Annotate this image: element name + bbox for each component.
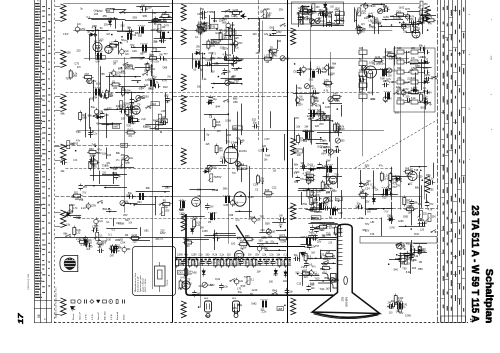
svg-text:0,1: 0,1: [100, 91, 104, 94]
svg-text:25V: 25V: [365, 230, 370, 233]
svg-text:220: 220: [418, 176, 423, 179]
svg-text:125V: 125V: [231, 15, 237, 18]
svg-text:R50: R50: [161, 120, 166, 123]
svg-text:D51: D51: [397, 10, 402, 13]
svg-text:S39: S39: [412, 62, 417, 65]
svg-text:D78: D78: [294, 117, 299, 120]
svg-text:L51: L51: [401, 263, 406, 266]
svg-text:2,2n: 2,2n: [78, 197, 83, 200]
svg-text:ECC81: ECC81: [239, 150, 247, 153]
svg-text:220: 220: [113, 87, 118, 90]
svg-text:Tr44: Tr44: [319, 288, 325, 291]
svg-text:B98: B98: [118, 67, 123, 70]
svg-text:0,5W: 0,5W: [241, 247, 247, 250]
svg-text:2W: 2W: [153, 41, 157, 44]
svg-text:0,1: 0,1: [139, 87, 143, 90]
svg-text:C54: C54: [214, 41, 219, 44]
svg-text:5p: 5p: [80, 9, 83, 11]
svg-text:D80: D80: [223, 187, 228, 190]
svg-text:B92: B92: [103, 208, 108, 211]
svg-text:B81: B81: [315, 274, 320, 277]
svg-text:C75: C75: [210, 45, 215, 48]
svg-text:70V: 70V: [329, 67, 334, 70]
svg-text:C37: C37: [165, 101, 170, 104]
svg-text:12k: 12k: [227, 70, 232, 73]
svg-text:5p: 5p: [154, 23, 157, 26]
svg-text:L38: L38: [180, 209, 185, 212]
svg-text:2W: 2W: [305, 125, 309, 128]
svg-text:Servo-P: Servo-P: [78, 312, 81, 320]
svg-text:330: 330: [424, 220, 429, 223]
svg-text:Tr13: Tr13: [382, 197, 387, 200]
svg-text:0,1: 0,1: [328, 154, 332, 157]
svg-text:100: 100: [234, 70, 239, 72]
svg-text:0,5W: 0,5W: [315, 21, 321, 23]
svg-text:D22: D22: [162, 12, 167, 15]
svg-text:50µ: 50µ: [328, 16, 333, 19]
svg-text:S40: S40: [144, 84, 149, 87]
svg-text:S51: S51: [74, 192, 79, 195]
svg-text:2,2n: 2,2n: [408, 168, 413, 171]
svg-text:C77: C77: [212, 212, 217, 215]
svg-text:70V: 70V: [300, 178, 305, 181]
svg-text:1M: 1M: [419, 261, 422, 264]
svg-text:R56: R56: [395, 244, 400, 247]
svg-text:125V: 125V: [266, 196, 272, 199]
svg-text:10k: 10k: [375, 190, 380, 192]
svg-text:2,2n: 2,2n: [269, 254, 274, 257]
svg-text:100: 100: [295, 271, 300, 274]
svg-text:0,1: 0,1: [160, 237, 164, 240]
svg-text:125V: 125V: [202, 230, 208, 233]
svg-text:Gr82: Gr82: [304, 246, 310, 249]
svg-text:4,7k: 4,7k: [73, 208, 78, 210]
svg-text:25V: 25V: [209, 206, 214, 209]
svg-text:L85: L85: [164, 95, 169, 98]
svg-text:0,5 W: 0,5 W: [111, 313, 113, 320]
svg-text:8,2k: 8,2k: [271, 53, 276, 56]
svg-text:S94: S94: [391, 81, 396, 84]
svg-text:4,7k: 4,7k: [99, 95, 104, 98]
svg-text:T5: T5: [187, 278, 191, 281]
svg-text:D60: D60: [333, 93, 338, 96]
svg-text:70V: 70V: [333, 233, 338, 236]
svg-text:T54: T54: [109, 72, 114, 75]
svg-text:220: 220: [217, 131, 222, 133]
svg-text:Tr58: Tr58: [423, 17, 429, 20]
svg-text:C67: C67: [85, 73, 90, 76]
svg-text:B68: B68: [323, 258, 328, 261]
svg-text:47n: 47n: [77, 66, 82, 69]
svg-text:50µ: 50µ: [359, 81, 364, 83]
svg-text:0,1: 0,1: [325, 184, 329, 187]
svg-text:70V: 70V: [65, 77, 70, 80]
svg-text:100: 100: [384, 7, 389, 10]
svg-text:330: 330: [361, 197, 366, 200]
svg-text:0,1: 0,1: [402, 307, 406, 309]
svg-text:R25: R25: [406, 243, 411, 246]
svg-text:68k: 68k: [268, 235, 273, 238]
svg-text:T19: T19: [334, 174, 339, 177]
svg-text:U47: U47: [389, 217, 394, 220]
svg-text:C12: C12: [297, 282, 302, 285]
svg-text:4,7k: 4,7k: [323, 227, 328, 230]
svg-text:330: 330: [99, 111, 104, 113]
svg-text:1k5: 1k5: [409, 69, 414, 72]
svg-text:S49: S49: [355, 206, 360, 209]
svg-text:1M: 1M: [408, 212, 411, 215]
svg-text:0,5W: 0,5W: [280, 241, 286, 244]
svg-text:2W: 2W: [257, 271, 261, 274]
svg-text:2W: 2W: [372, 186, 376, 189]
svg-text:0,5W: 0,5W: [385, 51, 391, 54]
svg-text:U69: U69: [222, 21, 227, 24]
svg-text:Gr29: Gr29: [264, 8, 270, 11]
svg-text:330: 330: [389, 312, 394, 314]
svg-text:4: 4: [469, 13, 471, 15]
svg-text:1M: 1M: [113, 64, 116, 66]
svg-text:2W: 2W: [140, 58, 144, 61]
svg-text:125V: 125V: [276, 31, 282, 34]
svg-text:T71: T71: [207, 11, 212, 14]
svg-text:125V: 125V: [146, 7, 152, 10]
svg-text:1k5: 1k5: [236, 303, 241, 306]
svg-text:220: 220: [227, 254, 232, 257]
svg-text:220: 220: [328, 243, 333, 245]
svg-text:4,7k: 4,7k: [311, 234, 316, 237]
svg-text:25V: 25V: [424, 4, 429, 6]
svg-text:D10: D10: [413, 87, 418, 89]
svg-text:125V: 125V: [223, 47, 229, 50]
svg-text:100: 100: [211, 71, 216, 74]
svg-text:47n: 47n: [185, 262, 190, 265]
svg-text:L17: L17: [264, 55, 269, 58]
svg-text:C41: C41: [403, 304, 408, 307]
svg-text:10k: 10k: [300, 162, 305, 165]
svg-text:Gr73: Gr73: [329, 227, 335, 230]
svg-text:B66: B66: [315, 100, 320, 103]
svg-text:4,7k: 4,7k: [303, 173, 308, 176]
svg-text:47n: 47n: [97, 149, 102, 152]
svg-text:Gr93: Gr93: [321, 15, 327, 18]
svg-text:U44: U44: [116, 222, 121, 225]
svg-text:T79: T79: [109, 249, 114, 252]
svg-text:T34: T34: [229, 44, 234, 47]
svg-text:8,2k: 8,2k: [392, 71, 397, 73]
svg-text:0,1: 0,1: [99, 235, 103, 237]
svg-text:C43: C43: [371, 5, 376, 8]
svg-text:8,2k: 8,2k: [180, 200, 185, 203]
svg-text:2,2n: 2,2n: [81, 207, 86, 210]
svg-text:D28: D28: [197, 26, 202, 29]
svg-text:T43: T43: [370, 233, 375, 236]
svg-text:330: 330: [341, 141, 346, 143]
svg-text:50µ: 50µ: [164, 206, 169, 209]
svg-text:C52: C52: [314, 211, 319, 214]
svg-text:220: 220: [304, 276, 309, 279]
svg-text:2,2n: 2,2n: [220, 254, 225, 257]
svg-text:S59: S59: [132, 16, 137, 19]
svg-text:T65: T65: [100, 73, 105, 76]
svg-text:Tr30: Tr30: [87, 246, 93, 249]
svg-text:T77: T77: [163, 53, 168, 56]
svg-text:R30: R30: [89, 148, 94, 151]
svg-text:T82: T82: [260, 215, 265, 218]
svg-text:T84: T84: [93, 98, 98, 100]
svg-text:B12: B12: [341, 297, 344, 302]
svg-text:U50: U50: [397, 77, 402, 80]
svg-text:70V: 70V: [217, 176, 222, 179]
svg-text:50µ: 50µ: [271, 241, 276, 243]
svg-text:D62: D62: [309, 80, 314, 82]
svg-text:R76: R76: [405, 8, 410, 11]
svg-text:5p: 5p: [150, 72, 153, 74]
svg-text:4,7k: 4,7k: [94, 228, 99, 231]
svg-text:4,7k: 4,7k: [321, 146, 326, 149]
svg-text:Ers: Ers: [37, 1, 40, 3]
svg-text:1M: 1M: [312, 19, 315, 22]
svg-text:330: 330: [258, 239, 263, 242]
svg-text:BU8: BU8: [204, 298, 209, 300]
svg-text:U14: U14: [249, 263, 254, 266]
svg-text:2,2n: 2,2n: [104, 114, 109, 117]
svg-text:U29: U29: [373, 17, 378, 20]
svg-text:T59: T59: [221, 73, 226, 76]
svg-text:70V: 70V: [82, 193, 87, 195]
svg-text:C55: C55: [377, 10, 382, 13]
svg-text:06: 06: [37, 314, 41, 318]
svg-text:100: 100: [61, 158, 66, 161]
svg-text:R56: R56: [418, 268, 423, 271]
svg-text:L12: L12: [427, 9, 432, 12]
svg-text:0,5W: 0,5W: [301, 203, 307, 206]
svg-text:47n: 47n: [428, 23, 433, 26]
svg-text:0,1: 0,1: [370, 183, 374, 186]
svg-text:0,1: 0,1: [275, 262, 279, 265]
svg-text:B17: B17: [125, 219, 130, 222]
svg-text:Gr49: Gr49: [215, 32, 221, 35]
svg-text:12k: 12k: [262, 254, 267, 257]
svg-text:0,5W: 0,5W: [231, 142, 237, 145]
svg-text:Abgleich nach Service-Dok. S.1: Abgleich nach Service-Dok. S.14: [55, 287, 58, 318]
svg-text:125V: 125V: [324, 197, 330, 200]
svg-text:R17: R17: [338, 231, 343, 234]
svg-text:B55: B55: [245, 235, 250, 238]
svg-text:U2: U2: [409, 183, 413, 186]
svg-text:U68: U68: [233, 101, 238, 104]
svg-text:C75: C75: [122, 145, 127, 148]
svg-text:2,2n: 2,2n: [261, 310, 266, 313]
svg-text:2,2n: 2,2n: [361, 12, 366, 15]
svg-text:47n: 47n: [312, 266, 317, 269]
svg-text:0,5 W: 0,5 W: [92, 313, 94, 320]
svg-text:10k: 10k: [296, 125, 301, 128]
svg-text:12k: 12k: [311, 287, 316, 290]
svg-text:2,2n: 2,2n: [320, 21, 325, 23]
svg-text:L24: L24: [304, 130, 309, 133]
svg-text:2W: 2W: [126, 194, 130, 197]
svg-text:U18: U18: [161, 110, 166, 113]
svg-text:Gr87: Gr87: [113, 126, 119, 129]
svg-text:L70: L70: [237, 287, 242, 290]
svg-text:D85: D85: [403, 216, 408, 219]
svg-text:T18: T18: [414, 169, 419, 172]
svg-text:70V: 70V: [365, 223, 370, 226]
svg-text:1k5: 1k5: [273, 171, 277, 173]
svg-text:50µ: 50µ: [419, 22, 424, 25]
svg-text:Tr14: Tr14: [395, 258, 401, 261]
svg-text:S85: S85: [159, 41, 164, 43]
svg-text:8,2k: 8,2k: [400, 244, 405, 247]
svg-text:0,5W: 0,5W: [222, 31, 228, 33]
svg-text:1M: 1M: [153, 18, 156, 21]
svg-text:220 V = 50 Hz: 220 V = 50 Hz: [145, 279, 147, 292]
svg-text:U30: U30: [295, 150, 300, 153]
svg-text:Gr21: Gr21: [354, 10, 360, 13]
svg-text:47n: 47n: [128, 135, 133, 138]
svg-text:Gr93: Gr93: [233, 9, 239, 12]
svg-text:D52: D52: [294, 71, 299, 74]
svg-text:U41: U41: [180, 277, 185, 280]
svg-text:Gr15: Gr15: [384, 177, 390, 180]
svg-text:100: 100: [387, 215, 392, 218]
svg-text:47n: 47n: [76, 140, 81, 143]
svg-text:1M: 1M: [125, 234, 128, 237]
svg-text:330: 330: [90, 98, 95, 101]
svg-text:12k: 12k: [359, 70, 364, 72]
svg-text:220: 220: [407, 78, 412, 81]
svg-text:0,1: 0,1: [87, 16, 91, 19]
svg-text:50µ: 50µ: [273, 274, 278, 277]
svg-text:47n: 47n: [130, 123, 135, 126]
svg-text:T10: T10: [401, 24, 406, 27]
svg-text:C3: C3: [255, 189, 259, 192]
svg-text:100: 100: [297, 154, 302, 157]
svg-text:8,2k: 8,2k: [131, 46, 136, 49]
svg-text:S32: S32: [252, 119, 257, 122]
svg-text:D62: D62: [296, 102, 301, 105]
svg-text:25V: 25V: [256, 53, 261, 55]
svg-text:47n: 47n: [411, 57, 416, 60]
svg-text:Tr56: Tr56: [192, 271, 198, 274]
svg-text:25V: 25V: [388, 99, 393, 101]
svg-text:220: 220: [76, 50, 81, 53]
svg-text:Tr96: Tr96: [240, 140, 246, 143]
svg-text:125V: 125V: [264, 139, 270, 141]
svg-text:1M: 1M: [154, 29, 157, 32]
svg-text:47n: 47n: [184, 254, 189, 257]
svg-text:25V: 25V: [108, 94, 113, 97]
svg-text:50µ: 50µ: [163, 18, 168, 21]
svg-text:2,2n: 2,2n: [99, 221, 104, 223]
svg-text:T24: T24: [311, 11, 316, 14]
svg-text:S92: S92: [301, 13, 306, 16]
svg-text:220: 220: [338, 18, 343, 21]
svg-text:70V: 70V: [307, 182, 312, 185]
svg-text:T63: T63: [74, 142, 79, 145]
svg-text:T98: T98: [329, 11, 334, 14]
svg-text:68k: 68k: [415, 187, 420, 190]
svg-text:47n: 47n: [396, 86, 401, 89]
svg-text:T6: T6: [126, 42, 129, 44]
svg-text:C59: C59: [230, 263, 235, 266]
svg-text:Gr66: Gr66: [398, 220, 404, 223]
svg-text:R30: R30: [397, 97, 402, 100]
svg-text:5p: 5p: [118, 175, 121, 178]
svg-text:Elko 350: Elko 350: [105, 311, 107, 320]
svg-text:4,7k: 4,7k: [237, 238, 242, 241]
svg-text:x: x: [469, 158, 471, 160]
svg-text:0,5W: 0,5W: [177, 254, 183, 257]
svg-text:C99: C99: [229, 214, 234, 217]
svg-text:C24: C24: [365, 187, 370, 190]
svg-text:S89: S89: [82, 117, 87, 120]
svg-text:S31: S31: [423, 98, 428, 101]
svg-text:Draht: Draht: [122, 314, 125, 320]
svg-text:25V: 25V: [155, 62, 160, 64]
svg-text:S71: S71: [212, 53, 217, 56]
svg-text:Gr12: Gr12: [127, 128, 133, 131]
svg-text:1M: 1M: [278, 40, 281, 43]
svg-text:2,2n: 2,2n: [429, 178, 434, 181]
svg-text:47n: 47n: [372, 26, 377, 29]
svg-text:2W: 2W: [167, 77, 171, 79]
svg-text:2W: 2W: [200, 8, 204, 11]
svg-text:70V: 70V: [318, 229, 323, 232]
svg-text:L98: L98: [309, 209, 314, 212]
svg-text:0,5W: 0,5W: [63, 34, 69, 36]
svg-text:U17: U17: [90, 158, 95, 161]
svg-text:D28: D28: [112, 172, 117, 175]
svg-text:125V: 125V: [425, 74, 431, 77]
svg-text:8,2k: 8,2k: [234, 82, 239, 85]
svg-text:1M: 1M: [332, 257, 335, 259]
svg-text:0,1: 0,1: [323, 270, 327, 273]
svg-text:5p: 5p: [207, 134, 210, 137]
svg-text:Tr9: Tr9: [232, 172, 236, 175]
svg-text:Tr20: Tr20: [314, 278, 320, 281]
svg-text:25V: 25V: [213, 234, 218, 237]
svg-text:D37: D37: [121, 118, 126, 121]
svg-text:25V: 25V: [123, 214, 128, 217]
svg-text:0,1: 0,1: [112, 229, 116, 232]
svg-text:Gr39: Gr39: [383, 16, 389, 19]
svg-text:4,7k: 4,7k: [92, 115, 97, 118]
svg-text:125V: 125V: [191, 254, 197, 257]
svg-text:10k: 10k: [129, 158, 134, 160]
svg-text:S62: S62: [138, 36, 143, 38]
svg-text:U64: U64: [96, 62, 101, 64]
svg-text:T43: T43: [211, 25, 216, 28]
svg-text:C19: C19: [253, 183, 258, 186]
svg-text:Tr2: Tr2: [244, 276, 248, 279]
svg-text:8,2k: 8,2k: [223, 286, 228, 289]
svg-text:68k: 68k: [146, 187, 151, 190]
svg-text:D38: D38: [322, 71, 327, 74]
svg-text:12k: 12k: [234, 254, 239, 257]
svg-text:B19: B19: [265, 189, 270, 192]
svg-text:220: 220: [320, 254, 325, 257]
svg-text:220: 220: [411, 47, 416, 50]
svg-text:S42: S42: [317, 109, 322, 112]
svg-text:125V: 125V: [91, 206, 97, 208]
svg-text:0,1: 0,1: [106, 221, 110, 224]
svg-text:220: 220: [413, 69, 418, 71]
svg-text:D89: D89: [320, 268, 325, 271]
svg-text:70V: 70V: [406, 16, 411, 19]
svg-text:B59: B59: [265, 222, 270, 225]
svg-text:D97: D97: [110, 255, 115, 257]
